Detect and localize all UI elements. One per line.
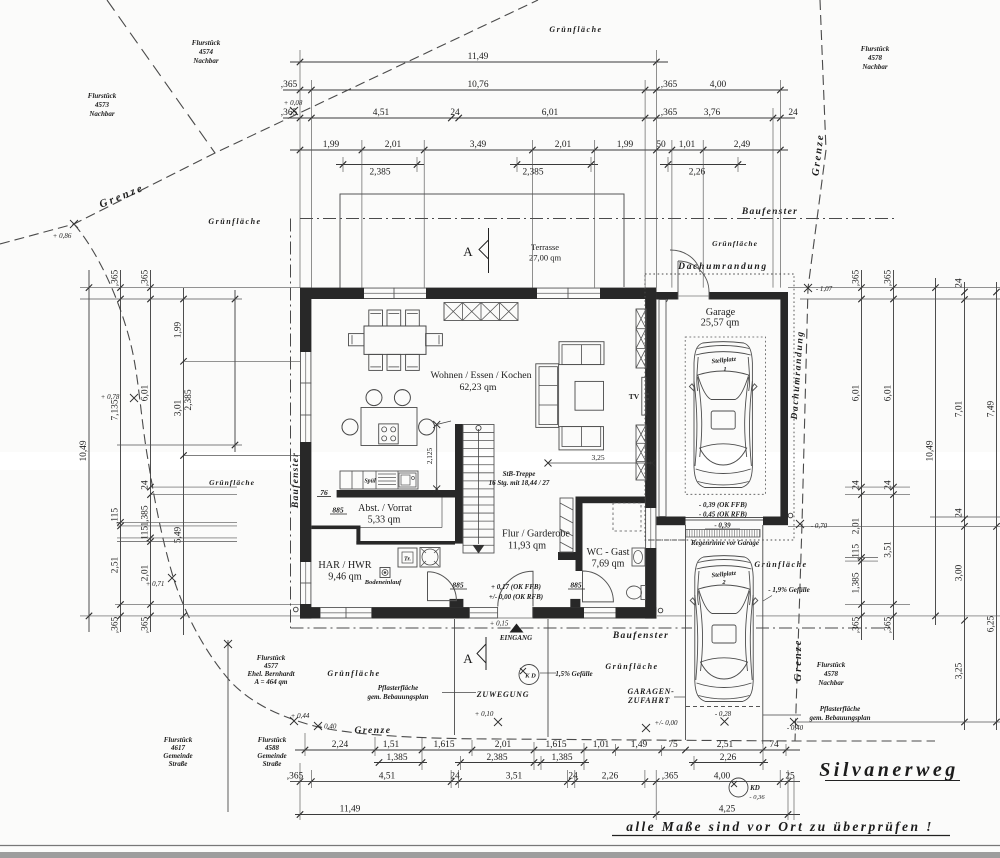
svg-text:7,69 qm: 7,69 qm xyxy=(592,559,625,570)
dimension row top 11,49 xyxy=(290,52,668,65)
corner marker circle garage NW xyxy=(663,298,668,303)
dimension chain right total 10,49 xyxy=(925,278,938,625)
gefaelle leader right xyxy=(763,596,772,602)
walkway edge west xyxy=(454,619,456,735)
entrance pier west xyxy=(450,599,464,607)
svg-text:- 0,40: - 0,40 xyxy=(787,724,804,732)
interior wall Abst-HAR connector xyxy=(356,526,360,545)
svg-text:Pflasterfläche: Pflasterfläche xyxy=(820,705,860,713)
Dachumrandung dotted rect xyxy=(645,274,794,540)
svg-text:Flurstück: Flurstück xyxy=(257,654,286,662)
svg-text:9,46 qm: 9,46 qm xyxy=(328,572,361,583)
dining chairs bottom row xyxy=(369,354,420,370)
svg-text:10,49: 10,49 xyxy=(79,440,89,461)
interior wall Abst-HAR upper xyxy=(311,526,360,530)
svg-text:,115: ,115 xyxy=(110,508,120,524)
driveway edge east xyxy=(762,525,764,744)
window south 2 xyxy=(470,607,498,618)
svg-text:- 1,9% Gefälle: - 1,9% Gefälle xyxy=(768,586,809,594)
svg-text:62,23 qm: 62,23 qm xyxy=(459,382,496,393)
garage wall west inner xyxy=(659,300,666,517)
svg-text:Grünfläche: Grünfläche xyxy=(605,662,658,671)
svg-text:- 1,07: - 1,07 xyxy=(816,285,833,293)
svg-text:4573: 4573 xyxy=(94,101,110,109)
svg-text:4,51: 4,51 xyxy=(373,108,390,118)
garage wall north xyxy=(656,292,788,300)
svg-text:11,49: 11,49 xyxy=(468,52,489,62)
svg-text:Flurstück: Flurstück xyxy=(192,39,221,47)
garage door opening xyxy=(686,516,764,527)
window west 2 xyxy=(300,562,311,604)
kitchen island xyxy=(361,408,417,446)
svg-text:,365: ,365 xyxy=(883,616,893,633)
svg-text:4588: 4588 xyxy=(264,744,280,752)
svg-text:Silvanerweg: Silvanerweg xyxy=(819,759,959,781)
window north 2 terrace door xyxy=(537,288,600,299)
island stool right xyxy=(419,419,435,435)
x marker +0,08 xyxy=(290,107,298,115)
dimension 2,125 kitchen xyxy=(436,425,438,490)
interior wall Abst-HAR lower xyxy=(356,541,455,545)
svg-text:2,01: 2,01 xyxy=(140,564,150,581)
west boundary curve xyxy=(74,224,935,741)
svg-text:24: 24 xyxy=(954,508,964,518)
wardrobe closet xyxy=(560,498,573,552)
svg-text:Flurstück: Flurstück xyxy=(88,92,117,100)
window south 1 xyxy=(320,607,371,618)
dimension chain right garage xyxy=(954,278,967,730)
window east WC xyxy=(645,508,656,548)
sofa bottom xyxy=(559,427,604,450)
dimension chain left 6,01 xyxy=(140,269,153,633)
svg-text:,365: ,365 xyxy=(140,269,150,286)
x marker +0,44 xyxy=(290,717,298,725)
Baufenster dashed line bottom xyxy=(291,627,693,629)
svg-text:Grenze: Grenze xyxy=(355,726,392,736)
svg-text:alle Maße sind vor Ort zu über: alle Maße sind vor Ort zu überprüfen ! xyxy=(626,819,934,834)
svg-text:1,385: 1,385 xyxy=(551,753,572,763)
svg-text:3,25: 3,25 xyxy=(954,662,964,679)
x marker -0,28 xyxy=(721,718,729,726)
svg-text:6,01: 6,01 xyxy=(140,384,150,401)
svg-text:1,615: 1,615 xyxy=(433,740,454,750)
svg-text:1,385: 1,385 xyxy=(851,572,861,593)
svg-text:2,01: 2,01 xyxy=(555,140,572,150)
dimension chain left total 10,49 xyxy=(79,270,92,632)
Baufenster dashed line left xyxy=(290,219,292,629)
svg-text:GARAGEN-: GARAGEN- xyxy=(628,687,675,696)
svg-text:1,5% Gefälle: 1,5% Gefälle xyxy=(555,670,592,678)
svg-text:Grünfläche: Grünfläche xyxy=(209,478,255,487)
left extension lines xyxy=(80,288,300,616)
wall shelves X south xyxy=(636,425,646,480)
svg-text:,365: ,365 xyxy=(661,108,678,118)
scanner light band xyxy=(0,452,1000,470)
garage side door swing xyxy=(678,261,709,292)
interior wall Flur-WC north xyxy=(576,497,646,504)
x marker -0,70 xyxy=(796,520,804,528)
svg-text:27,00 qm: 27,00 qm xyxy=(529,253,562,263)
svg-text:10,49: 10,49 xyxy=(925,440,935,461)
svg-text:2,49: 2,49 xyxy=(734,140,751,150)
svg-text:24: 24 xyxy=(450,108,460,118)
sheet bottom line xyxy=(0,845,1000,847)
svg-text:7,01: 7,01 xyxy=(954,400,964,417)
svg-text:24: 24 xyxy=(954,278,964,288)
svg-text:885: 885 xyxy=(570,581,582,590)
svg-text:2,26: 2,26 xyxy=(602,771,619,781)
svg-text:Straße: Straße xyxy=(169,760,188,768)
svg-text:1,99: 1,99 xyxy=(617,140,634,150)
dimension chain right edge xyxy=(986,282,999,730)
garage wall south xyxy=(656,517,788,526)
svg-text:2,51: 2,51 xyxy=(110,556,120,573)
kitchen sink xyxy=(399,473,416,487)
svg-text:,365: ,365 xyxy=(662,771,679,781)
svg-text:1,49: 1,49 xyxy=(631,740,648,750)
svg-text:76: 76 xyxy=(320,488,328,497)
driveway end dashes -0,28 xyxy=(686,706,763,708)
svg-text:1,01: 1,01 xyxy=(679,140,696,150)
svg-text:Flurstück: Flurstück xyxy=(258,736,287,744)
svg-text:Baufenster: Baufenster xyxy=(612,631,669,641)
svg-text:- 0,39 (OK FFB): - 0,39 (OK FFB) xyxy=(699,501,747,509)
bottom extension lines xyxy=(300,733,794,820)
svg-text:+ 0,15: + 0,15 xyxy=(490,620,509,628)
pflaster leader left xyxy=(442,692,476,694)
svg-text:2,385: 2,385 xyxy=(184,389,194,410)
svg-text:6,01: 6,01 xyxy=(851,384,861,401)
svg-text:6,01: 6,01 xyxy=(883,384,893,401)
KD circle street xyxy=(729,778,748,797)
washing machine xyxy=(420,548,440,568)
island stool left xyxy=(342,419,358,435)
svg-text:24: 24 xyxy=(568,771,578,781)
house outer wall south xyxy=(300,607,656,618)
svg-text:5,49: 5,49 xyxy=(173,526,183,543)
interior wall WC west xyxy=(576,503,583,571)
house outer wall east xyxy=(645,288,656,619)
svg-text:5,33 qm: 5,33 qm xyxy=(368,515,401,526)
svg-text:50: 50 xyxy=(656,140,666,150)
street parcel divider line bottom-left xyxy=(227,640,229,812)
svg-text:Flurstück: Flurstück xyxy=(164,736,193,744)
dimension row top 4,51 24 6,01 3,76 24 xyxy=(281,108,798,121)
svg-text:2,01: 2,01 xyxy=(385,140,402,150)
svg-text:25,57 qm: 25,57 qm xyxy=(701,318,740,329)
sofa left long xyxy=(536,364,559,428)
kitchen wall cabinets with X xyxy=(444,303,518,321)
x marker +0,86 xyxy=(70,220,78,228)
svg-text:885: 885 xyxy=(332,506,344,515)
svg-text:2,01: 2,01 xyxy=(495,740,512,750)
dining chair left end xyxy=(349,334,365,346)
svg-text:WC - Gast: WC - Gast xyxy=(587,547,630,558)
WC toilet xyxy=(627,586,642,599)
island stool top-left xyxy=(366,390,382,406)
svg-text:+/- 0,00: +/- 0,00 xyxy=(655,719,678,727)
svg-text:Flurstück: Flurstück xyxy=(817,661,846,669)
terrace outline xyxy=(340,194,624,290)
svg-text:TV: TV xyxy=(629,392,640,401)
house outer wall west xyxy=(300,288,311,619)
garage side door opening xyxy=(678,291,709,301)
dining chairs top row xyxy=(369,310,420,326)
corner marker circle garage SE xyxy=(788,513,793,518)
dimension chain left 7,135 xyxy=(110,269,123,633)
entrance pier east xyxy=(570,599,580,607)
svg-text:ZUFAHRT: ZUFAHRT xyxy=(627,696,670,705)
svg-text:4617: 4617 xyxy=(170,744,186,752)
svg-text:- 0,45 (OK RFB): - 0,45 (OK RFB) xyxy=(699,511,747,519)
svg-text:1,01: 1,01 xyxy=(593,740,610,750)
svg-text:1,99: 1,99 xyxy=(173,321,183,338)
dimension row top window axes xyxy=(290,140,788,153)
svg-text:Baufenster: Baufenster xyxy=(741,207,798,217)
svg-text:+ 0,44: + 0,44 xyxy=(291,712,310,720)
garagenzufahrt leader xyxy=(674,696,685,698)
svg-text:1,99: 1,99 xyxy=(323,140,340,150)
svg-text:7,135: 7,135 xyxy=(110,399,120,420)
svg-text:24: 24 xyxy=(883,480,893,490)
Abstellraum inner face lines xyxy=(441,498,443,528)
svg-text:885: 885 xyxy=(452,581,464,590)
svg-text:Grünfläche: Grünfläche xyxy=(327,669,380,678)
x marker +0,71 xyxy=(168,574,176,582)
pflaster leader right xyxy=(763,714,801,716)
svg-text:Grenze: Grenze xyxy=(793,639,804,682)
svg-text:75: 75 xyxy=(668,740,678,750)
svg-text:Ehel. Bernhardt: Ehel. Bernhardt xyxy=(246,670,295,678)
boundary line neighbour diagonal top-left xyxy=(107,0,215,153)
svg-text:gem. Bebauungsplan: gem. Bebauungsplan xyxy=(808,714,870,722)
dimension row bottom detail xyxy=(295,740,800,753)
svg-text:A: A xyxy=(463,244,473,259)
x marker on street divider xyxy=(224,640,232,648)
svg-text:3,51: 3,51 xyxy=(506,771,523,781)
kitchen counter south xyxy=(340,471,418,489)
svg-text:2,01: 2,01 xyxy=(851,517,861,534)
svg-text:Gemeinde: Gemeinde xyxy=(257,752,286,760)
svg-text:A = 464 qm: A = 464 qm xyxy=(254,678,289,686)
svg-text:2,26: 2,26 xyxy=(720,753,737,763)
door arc HAR xyxy=(428,572,457,601)
svg-text:gem. Bebauungsplan: gem. Bebauungsplan xyxy=(366,693,428,701)
floor drain symbol xyxy=(380,568,390,578)
staircase xyxy=(463,425,494,554)
car Stellplatz 1 xyxy=(689,342,757,488)
svg-text:Nachbar: Nachbar xyxy=(88,110,115,118)
svg-text:Wohnen / Essen / Kochen: Wohnen / Essen / Kochen xyxy=(431,370,532,381)
x marker +/-0,00 xyxy=(642,724,650,732)
wardrobe wall stub xyxy=(558,552,576,560)
sofa top xyxy=(559,342,604,365)
svg-text:,365: ,365 xyxy=(110,616,120,633)
svg-text:3,49: 3,49 xyxy=(470,140,487,150)
svg-text:Gemeinde: Gemeinde xyxy=(163,752,192,760)
dimension row bottom walls xyxy=(287,771,800,784)
svg-text:KD: KD xyxy=(749,784,760,792)
boundary Grenze line top-left to top-center xyxy=(0,0,538,244)
top extension lines xyxy=(300,50,780,288)
svg-text:+ 0,17 (OK FFB): + 0,17 (OK FFB) xyxy=(491,583,541,591)
dashes left of rain gutter xyxy=(648,539,686,541)
svg-text:HAR / HWR: HAR / HWR xyxy=(318,560,371,571)
svg-text:Dachumrandung: Dachumrandung xyxy=(677,262,768,272)
cooktop xyxy=(379,424,399,444)
svg-text:- 0,39: - 0,39 xyxy=(714,522,731,530)
svg-text:2,24: 2,24 xyxy=(332,740,349,750)
svg-text:Pflasterfläche: Pflasterfläche xyxy=(378,684,418,692)
svg-text:+ 0,10: + 0,10 xyxy=(475,710,494,718)
svg-text:24: 24 xyxy=(851,480,861,490)
svg-text:Nachbar: Nachbar xyxy=(817,679,844,687)
svg-text:11,93 qm: 11,93 qm xyxy=(508,541,546,552)
dimension 3,25 lounge xyxy=(548,462,653,464)
svg-text:4,25: 4,25 xyxy=(719,804,736,814)
svg-text:Straße: Straße xyxy=(263,760,282,768)
entrance arrow EINGANG xyxy=(510,624,524,633)
dimension row top windows 2,385 2,385 2,26 xyxy=(336,161,746,177)
svg-text:+/- 0,00 (OK RFB): +/- 0,00 (OK RFB) xyxy=(489,593,543,601)
svg-text:Nachbar: Nachbar xyxy=(192,57,219,65)
svg-text:4,00: 4,00 xyxy=(710,80,727,90)
corner marker circle SW xyxy=(294,607,299,612)
svg-text:2,51: 2,51 xyxy=(717,740,734,750)
x marker -1,07 xyxy=(804,284,812,292)
svg-text:4578: 4578 xyxy=(823,670,839,678)
svg-text:2,385: 2,385 xyxy=(486,753,507,763)
dimension row bottom windows xyxy=(374,753,768,766)
svg-text:Terrasse: Terrasse xyxy=(531,242,559,252)
rain gutter hatch xyxy=(686,530,761,538)
svg-text:1,51: 1,51 xyxy=(383,740,400,750)
svg-text:,365: ,365 xyxy=(110,269,120,286)
svg-text:10,76: 10,76 xyxy=(467,80,488,90)
svg-text:Spül: Spül xyxy=(364,479,376,485)
x marker -0,40 xyxy=(790,718,798,726)
house outer wall north xyxy=(300,288,656,299)
svg-text:Grünfläche: Grünfläche xyxy=(208,217,261,226)
TV board xyxy=(642,377,646,415)
island stool top-right xyxy=(394,390,410,406)
east boundary Grenze polyline xyxy=(795,0,826,741)
svg-text:ZUWEGUNG: ZUWEGUNG xyxy=(476,690,530,699)
WC shower dashed xyxy=(613,503,641,531)
svg-text:2,385: 2,385 xyxy=(522,168,543,178)
svg-text:- 0,70: - 0,70 xyxy=(811,522,828,530)
sheet bottom band xyxy=(0,852,1000,858)
svg-text:4574: 4574 xyxy=(198,48,214,56)
corner marker circle SE xyxy=(658,608,663,613)
svg-text:,365: ,365 xyxy=(661,80,678,90)
svg-text:- 0,28: - 0,28 xyxy=(715,710,732,718)
svg-text:3,76: 3,76 xyxy=(704,108,721,118)
coffee table xyxy=(575,381,604,410)
svg-text:Baufenster: Baufenster xyxy=(291,452,301,509)
window north 1 xyxy=(364,288,426,299)
interior wall kitchen-Abstellraum xyxy=(337,490,455,498)
svg-text:2,125: 2,125 xyxy=(426,448,434,465)
window south 3 xyxy=(584,607,616,618)
dimension chain right house 2 xyxy=(883,269,896,640)
svg-text:7,49: 7,49 xyxy=(986,400,996,417)
Dachumrandung leader arc xyxy=(670,250,700,272)
dimension chain left rooms xyxy=(173,288,186,635)
svg-text:Grünfläche: Grünfläche xyxy=(712,239,758,248)
svg-text:A: A xyxy=(463,651,473,666)
svg-text:24: 24 xyxy=(140,480,150,490)
svg-text:3,25: 3,25 xyxy=(591,453,604,462)
svg-text:Flurstück: Flurstück xyxy=(861,45,890,53)
svg-text:74: 74 xyxy=(769,740,779,750)
svg-text:,365: ,365 xyxy=(140,616,150,633)
svg-text:EINGANG: EINGANG xyxy=(499,634,532,642)
svg-text:3,00: 3,00 xyxy=(954,564,964,581)
svg-text:,365: ,365 xyxy=(883,269,893,286)
svg-text:6,25: 6,25 xyxy=(986,615,996,632)
entrance door gap xyxy=(498,605,533,620)
svg-text:1,385: 1,385 xyxy=(140,505,150,526)
dimension row bottom totals xyxy=(295,804,800,817)
right extension lines xyxy=(657,288,1000,722)
KD circle entrance xyxy=(519,665,539,685)
stair centerline with arrow xyxy=(478,429,480,544)
window west 1 xyxy=(300,352,311,442)
svg-text:2,385: 2,385 xyxy=(369,168,390,178)
svg-text:4,00: 4,00 xyxy=(714,771,731,781)
svg-text:1,385: 1,385 xyxy=(386,753,407,763)
svg-text:11,49: 11,49 xyxy=(340,804,361,814)
svg-text:StB-Treppe: StB-Treppe xyxy=(503,470,536,478)
svg-text:Tr.: Tr. xyxy=(404,557,411,563)
svg-text:Grünfläche: Grünfläche xyxy=(549,25,602,34)
driveway edge west xyxy=(685,525,687,740)
svg-text:- 0,36: - 0,36 xyxy=(749,794,765,801)
svg-text:4578: 4578 xyxy=(867,54,883,62)
svg-text:Nachbar: Nachbar xyxy=(861,63,888,71)
x marker +0,40 xyxy=(314,722,322,730)
svg-text:3,51: 3,51 xyxy=(883,541,893,558)
walkway edge east xyxy=(547,619,549,737)
svg-text:3,01: 3,01 xyxy=(173,399,183,416)
entrance door swing arc xyxy=(498,571,533,606)
svg-text:1: 1 xyxy=(723,366,726,373)
Baufenster dashed line top xyxy=(300,218,894,220)
garage wall east xyxy=(780,292,788,517)
svg-text:4,51: 4,51 xyxy=(379,771,396,781)
svg-text:,365: ,365 xyxy=(851,269,861,286)
svg-text:+ 0,40: + 0,40 xyxy=(318,723,337,731)
svg-text:25: 25 xyxy=(785,771,795,781)
svg-text:Garage: Garage xyxy=(706,307,736,318)
svg-text:Abst. / Vorrat: Abst. / Vorrat xyxy=(358,503,412,514)
svg-text:24: 24 xyxy=(788,108,798,118)
svg-text:4577: 4577 xyxy=(263,662,279,670)
svg-text:,115: ,115 xyxy=(140,526,150,542)
dimension row top 10,76 / 4,00 xyxy=(281,80,788,93)
svg-text:,365: ,365 xyxy=(281,108,298,118)
svg-text:16 Stg. mit 18,44 / 27: 16 Stg. mit 18,44 / 27 xyxy=(489,479,550,487)
svg-text:Bodeneinlauf: Bodeneinlauf xyxy=(364,579,402,586)
stair wall xyxy=(455,424,463,544)
dryer Tr box xyxy=(398,548,417,567)
dimension chain right house xyxy=(851,269,864,640)
dimension chain left window 2,385 xyxy=(232,290,238,452)
svg-text:+ 0,86: + 0,86 xyxy=(53,232,72,240)
dining chair right end xyxy=(426,334,443,346)
WC washbasin xyxy=(632,548,645,566)
